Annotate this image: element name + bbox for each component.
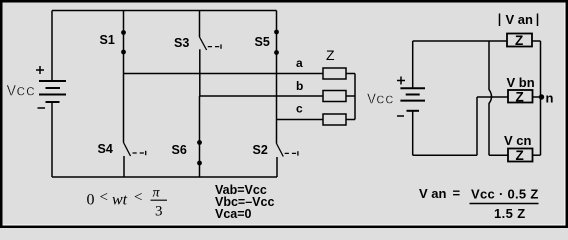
wire: right vertical bus to node n bbox=[540, 41, 542, 155]
svg-text:S5: S5 bbox=[255, 35, 270, 49]
wire: Z cn left lead bbox=[489, 154, 508, 156]
svg-text:Z: Z bbox=[326, 47, 335, 63]
svg-text:S4: S4 bbox=[98, 142, 113, 156]
svg-text:S3: S3 bbox=[174, 36, 189, 50]
svg-text:<: < bbox=[134, 190, 142, 206]
switch S5 contact dot lower bbox=[274, 50, 279, 55]
switch S3 blade (open) bbox=[200, 37, 207, 50]
wire: leg3 lower lead to S2 bbox=[276, 120, 278, 144]
wire: load common vertical bbox=[354, 74, 356, 120]
switch S5 contact dot upper bbox=[274, 30, 279, 35]
wire: phase a line bbox=[124, 73, 324, 75]
wire: left inverter top rail bbox=[52, 10, 277, 12]
wire: leg2 upper lead to S3 bbox=[199, 11, 201, 38]
wire: phase c line bbox=[277, 119, 324, 121]
wire: positive drop to Z cn with hop over bn wire bbox=[489, 41, 492, 155]
svg-text:S6: S6 bbox=[172, 143, 187, 157]
wire: Z cn right lead bbox=[533, 154, 541, 156]
wire: battery1 negative lead bbox=[51, 102, 53, 177]
wire: leg1 lower lead to S4 bbox=[123, 74, 125, 143]
switch S1 contact dot lower bbox=[121, 50, 126, 55]
minus sign battery1 bbox=[38, 107, 46, 109]
switch S6 contact dot upper bbox=[197, 140, 202, 145]
wire: leg2 lower lead from S3 to node b bbox=[199, 49, 201, 96]
node n dot bbox=[539, 94, 544, 99]
wire: phase b line bbox=[200, 95, 324, 97]
svg-text:3: 3 bbox=[155, 204, 163, 220]
svg-text:<: < bbox=[100, 190, 108, 206]
svg-text:Vcc · 0.5 Z: Vcc · 0.5 Z bbox=[471, 187, 539, 202]
svg-text:V an: V an bbox=[506, 12, 534, 27]
svg-text:Z: Z bbox=[516, 148, 524, 163]
switch S1 contact dot upper bbox=[121, 30, 126, 35]
minus sign battery2 bbox=[397, 115, 404, 117]
svg-text:V an: V an bbox=[419, 186, 447, 201]
svg-text:π: π bbox=[153, 186, 161, 201]
svg-text:S2: S2 bbox=[253, 143, 268, 157]
svg-text:Vcc: Vcc bbox=[367, 92, 394, 109]
wire: Z an right lead bbox=[532, 40, 541, 42]
impedance Z an box bbox=[507, 33, 532, 48]
wire: Z bn left lead bbox=[477, 96, 508, 98]
label interval 0 < wt < pi/3 bbox=[87, 186, 168, 220]
load Z phase a box bbox=[323, 68, 346, 79]
plus sign battery2 bbox=[397, 77, 405, 85]
svg-text:c: c bbox=[296, 102, 303, 116]
switch S4 blade (open) bbox=[124, 143, 131, 157]
svg-text:V cn: V cn bbox=[504, 133, 532, 148]
wire: right circuit top wire bbox=[413, 40, 507, 42]
wire: battery2 negative lead bbox=[412, 111, 414, 156]
svg-text:wt: wt bbox=[112, 192, 128, 209]
load Z phase c box bbox=[323, 114, 346, 125]
switch S2 blade (open) bbox=[277, 144, 284, 157]
label |V an| bbox=[500, 12, 538, 27]
wire: Z bn right lead bbox=[533, 96, 541, 98]
wire: battery2 positive lead bbox=[412, 41, 414, 88]
wire: leg2 lower (S6 branch) bbox=[199, 96, 201, 177]
svg-text:S1: S1 bbox=[100, 33, 115, 47]
wire: load c to common bbox=[346, 119, 355, 121]
svg-text:Vcc: Vcc bbox=[7, 83, 36, 101]
svg-text:Z: Z bbox=[516, 90, 524, 105]
plus sign battery1 bbox=[36, 66, 44, 74]
switch S6 contact dot lower bbox=[197, 161, 202, 166]
wire: leg3 lower lead from S2 to bottom rail bbox=[276, 157, 278, 177]
svg-text:1.5 Z: 1.5 Z bbox=[494, 206, 526, 221]
svg-text:n: n bbox=[546, 91, 554, 106]
wire: leg1 lower lead from S4 to bottom rail bbox=[123, 156, 125, 177]
wire: right circuit bottom wire bbox=[413, 154, 477, 156]
battery Vcc (left) bbox=[39, 81, 66, 102]
wire: negative riser to Z bn bbox=[476, 97, 478, 155]
wire: load b to common bbox=[346, 95, 355, 97]
wire: left inverter bottom rail bbox=[52, 176, 277, 178]
svg-text:Z: Z bbox=[515, 33, 523, 48]
switch S2 actuation dashed arrow bbox=[285, 151, 298, 155]
svg-text:V bn: V bn bbox=[507, 75, 535, 90]
wire: leg1 upper (S1 branch) bbox=[123, 11, 125, 74]
wire: load a to common bbox=[346, 73, 355, 75]
svg-text:0: 0 bbox=[87, 192, 95, 209]
svg-text:b: b bbox=[296, 79, 303, 93]
wire: battery1 positive lead bbox=[51, 11, 53, 82]
battery Vcc (right) bbox=[400, 88, 425, 111]
impedance Z cn box bbox=[508, 148, 533, 163]
wire: leg3 upper (S5 branch) bbox=[276, 11, 278, 120]
formula V an = Vcc*0.5Z/1.5Z bbox=[419, 186, 539, 222]
switch S4 actuation dashed arrow bbox=[133, 151, 146, 155]
load Z phase b box bbox=[323, 91, 346, 102]
switch S3 actuation dashed arrow bbox=[208, 44, 221, 48]
svg-text:Vca=0: Vca=0 bbox=[215, 207, 252, 221]
svg-text:=: = bbox=[453, 186, 461, 201]
impedance Z bn box bbox=[508, 90, 533, 105]
svg-text:a: a bbox=[296, 56, 303, 70]
